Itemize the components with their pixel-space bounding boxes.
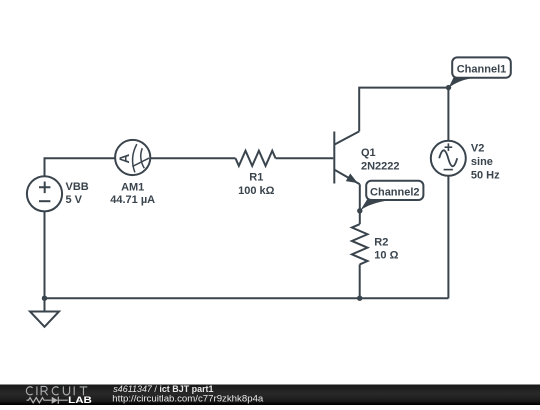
svg-text:Channel2: Channel2 [370,186,420,198]
bottom bar [0,385,540,406]
logo zigzag and diode [27,397,68,404]
svg-text:R2: R2 [374,236,388,248]
wire collector up and top wire [359,88,448,132]
svg-text:44.71 µA: 44.71 µA [110,194,155,206]
node junction R2 to bottom rail [357,296,362,301]
svg-text:http://circuitlab.com/c77r9zkh: http://circuitlab.com/c77r9zkhk8p4a [112,394,263,404]
label VBB [66,181,89,206]
ammeter AM1 [115,140,150,175]
svg-text:R1: R1 [249,172,263,184]
label R1 [238,172,275,197]
svg-text:s4611347 / ict BJT part1: s4611347 / ict BJT part1 [113,384,213,394]
voltage source VBB [27,176,62,211]
svg-text:sine: sine [471,156,493,168]
node Channel2 [360,181,423,211]
wire ammeter to R1 [150,157,235,159]
label AM1 [110,181,155,206]
node junction at Channel2 probe [357,208,362,213]
label V2 [471,142,500,181]
logo CIRCUIT [26,386,87,395]
wire bottom rail [45,297,449,299]
svg-text:10 Ω: 10 Ω [374,250,398,262]
ammeter A glyph [117,153,132,163]
svg-text:V2: V2 [471,142,484,154]
svg-text:AM1: AM1 [121,181,144,193]
svg-text:Channel1: Channel1 [457,63,507,75]
svg-text:VBB: VBB [66,181,89,193]
node Channel1 [449,57,511,88]
wire emitter lead [359,184,361,224]
wire VBB top to ammeter [45,158,116,176]
svg-text:100 kΩ: 100 kΩ [238,185,275,197]
svg-text:LAB: LAB [68,395,92,405]
resistor R1 [236,151,276,166]
svg-text:50 Hz: 50 Hz [471,169,500,181]
node junction at ground [42,296,47,301]
node junction at Channel1 probe [446,85,451,90]
label Channel2 [370,186,420,198]
wire R1 to base [276,157,334,159]
transistor Q1 [334,131,360,184]
wire VBB bottom lead [44,211,46,298]
svg-text:Q1: Q1 [361,147,376,159]
svg-text:A: A [117,153,132,163]
wire right vertical to V2 [447,88,449,299]
ground [30,298,59,327]
wire R2 to bottom [359,264,361,298]
resistor R2 [352,224,368,264]
label Q1 [361,147,400,173]
logo LAB [68,395,92,405]
svg-text:2N2222: 2N2222 [361,161,400,173]
label R2 [374,236,398,261]
label Channel1 [457,63,507,75]
svg-text:5 V: 5 V [66,194,83,206]
footer text [112,384,263,404]
voltage source V2 [431,141,466,176]
